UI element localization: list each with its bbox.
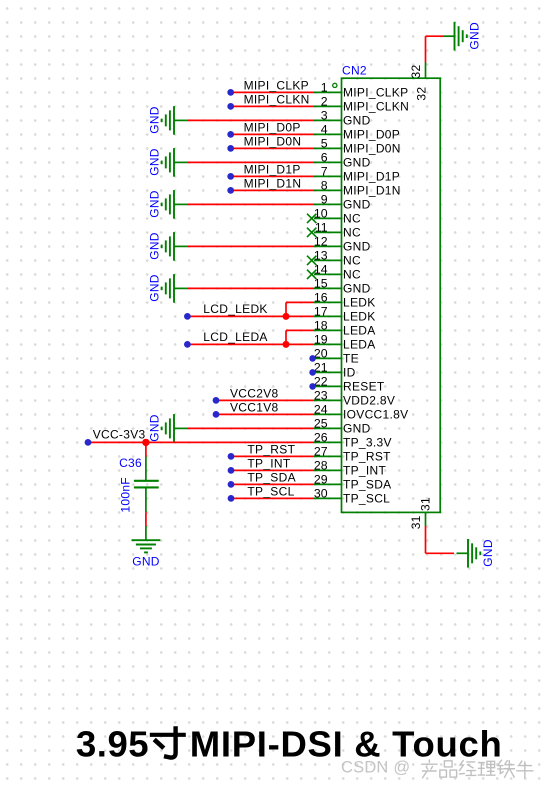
svg-text:3.95: 3.95 xyxy=(76,724,149,765)
wire TP_SDA xyxy=(231,483,314,485)
pin 19 (LEDA) xyxy=(314,333,376,352)
node MIPI_D1N endpoint xyxy=(227,187,234,194)
pin 30 (TP_SCL) xyxy=(314,487,390,506)
node pin 21 endpoint xyxy=(309,369,316,376)
ground symbol pin 3 xyxy=(148,106,188,135)
node LCD_LEDA endpoint xyxy=(184,341,191,348)
wire MIPI_CLKN xyxy=(232,105,314,107)
ground symbol bottom-right xyxy=(457,539,496,568)
node pin 22 endpoint xyxy=(309,383,316,390)
pin 20 (TE) xyxy=(314,347,359,366)
ground symbol pin 25 xyxy=(148,414,188,443)
node LCD_LEDK endpoint xyxy=(184,313,191,320)
pin 21 (ID) xyxy=(314,361,356,380)
node VCC2V8 endpoint xyxy=(213,397,220,404)
wire MIPI_D1P xyxy=(232,175,314,177)
wire VCC2V8 xyxy=(217,399,314,401)
pin 15 (GND) xyxy=(314,277,371,296)
pin 22 (RESET) xyxy=(314,375,385,394)
node VCC-3V3 endpoint xyxy=(85,439,92,446)
wire MIPI_D1N xyxy=(232,189,314,191)
pin 6 (GND) xyxy=(314,151,371,170)
pin 13 (NC) xyxy=(314,249,361,268)
node MIPI_D0P endpoint xyxy=(227,131,234,138)
title glyph 寸 xyxy=(150,726,186,757)
pin 27 (TP_RST) xyxy=(314,445,391,464)
junction VCC-3V3 / C36 xyxy=(142,439,149,446)
node TP_INT endpoint xyxy=(228,467,235,474)
wire MIPI_D0N xyxy=(232,147,314,149)
wire pin16 LEDK xyxy=(286,302,314,316)
node TP_SDA endpoint xyxy=(228,481,235,488)
node TP_SCL endpoint xyxy=(228,495,235,502)
ground symbol pin 15 xyxy=(148,274,188,303)
wire TP_RST xyxy=(231,455,314,457)
no-connect mark pin 10 xyxy=(307,214,316,223)
pin 11 (NC) xyxy=(314,221,361,240)
node VCC1V8 endpoint xyxy=(213,411,220,418)
pin 1 (MIPI_CLKP) xyxy=(314,81,408,100)
pin 16 (LEDK) xyxy=(314,291,376,310)
pin 4 (MIPI_D0P) xyxy=(314,123,400,142)
pin 9 (GND) xyxy=(314,193,371,212)
ground symbol pin 6 xyxy=(148,148,188,177)
wire GND to pin 3 xyxy=(188,119,314,121)
wire GND to pin 9 xyxy=(188,203,314,205)
ground symbol top-right xyxy=(443,22,482,51)
wire pin31 to GND xyxy=(426,526,455,553)
pin 7 (MIPI_D1P) xyxy=(314,165,400,184)
wire LCD_LEDK xyxy=(187,315,314,317)
node pin 20 endpoint xyxy=(309,355,316,362)
no-connect mark pin 14 xyxy=(307,270,316,279)
wire MIPI_CLKP xyxy=(232,91,314,93)
pin 26 (TP_3.3V) xyxy=(314,431,392,450)
pin 24 (IOVCC1.8V) xyxy=(314,403,408,422)
wire VCC-3V3 to pin 26 xyxy=(88,441,314,443)
no-connect mark pin 11 xyxy=(307,228,316,237)
node MIPI_CLKP endpoint xyxy=(227,89,234,96)
pin 12 (GND) xyxy=(314,235,371,254)
ground symbol pin 12 xyxy=(148,232,188,261)
node MIPI_D1P endpoint xyxy=(227,173,234,180)
wire GND to pin 6 xyxy=(188,161,314,163)
pin 17 (LEDK) xyxy=(314,305,376,324)
pin 2 (MIPI_CLKN) xyxy=(314,95,409,114)
pin 29 (TP_SDA) xyxy=(314,473,392,492)
wire GND to pin 15 xyxy=(188,287,314,289)
wire MIPI_D0P xyxy=(232,133,314,135)
wire VCC1V8 xyxy=(217,413,314,415)
wire GND to pin 12 xyxy=(188,245,314,247)
pin 14 (NC) xyxy=(314,263,361,282)
junction LEDA xyxy=(283,341,290,348)
capacitor C36 xyxy=(134,457,159,513)
wire junction to C36 xyxy=(145,444,147,456)
wire TP_INT xyxy=(231,469,314,471)
node MIPI_CLKN endpoint xyxy=(227,103,234,110)
wire pin32 to GND xyxy=(426,36,444,62)
wire TP_SCL xyxy=(231,497,314,499)
connector CN2 body xyxy=(342,78,441,512)
wire LCD_LEDA xyxy=(187,343,314,345)
pin 23 (VDD2.8V) xyxy=(314,389,395,408)
wire GND to pin 25 xyxy=(188,427,314,429)
wire C36 to GND xyxy=(145,512,147,526)
pin 3 (GND) xyxy=(314,109,371,128)
wire pin18 LEDA xyxy=(286,330,314,344)
pin 31 (bottom mounting pin) xyxy=(409,497,432,529)
pin 10 (NC) xyxy=(314,207,361,226)
node MIPI_D0N endpoint xyxy=(227,145,234,152)
svg-text:CSDN @: CSDN @ xyxy=(341,759,410,777)
pin 5 (MIPI_D0N) xyxy=(314,137,401,156)
junction LEDK xyxy=(283,313,290,320)
node TP_RST endpoint xyxy=(228,453,235,460)
watermark CJK 产品经理铁牛 xyxy=(422,760,533,778)
pin 8 (MIPI_D1N) xyxy=(314,179,401,198)
pin 18 (LEDA) xyxy=(314,319,376,338)
ground symbol pin 9 xyxy=(148,190,188,219)
pin 32 (top mounting pin) xyxy=(409,63,428,101)
ground symbol below C36 xyxy=(132,526,161,568)
pin 25 (GND) xyxy=(314,417,371,436)
pin 28 (TP_INT) xyxy=(314,459,387,478)
no-connect mark pin 13 xyxy=(307,256,316,265)
